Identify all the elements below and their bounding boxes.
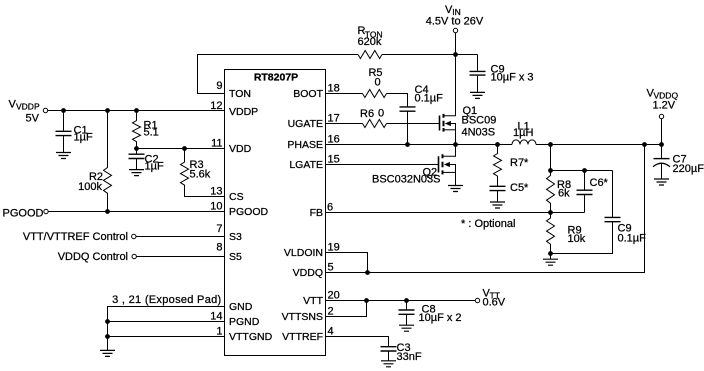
pin 14 PGND — [210, 311, 260, 329]
node VDDQ rail junction — [643, 143, 647, 147]
wire VTTSNS — [326, 301, 367, 317]
svg-text:13: 13 — [210, 186, 222, 198]
terminal VDDQ Control (S5) — [58, 251, 137, 263]
node VDD-R3 junction — [183, 147, 187, 151]
pin 20 VTT — [303, 290, 340, 308]
pin 15 LGATE — [289, 154, 339, 172]
wire GND pin — [108, 307, 225, 351]
capacitor C5* — [490, 182, 530, 202]
svg-text:0.1µF: 0.1µF — [415, 93, 444, 105]
wire R6 to Q1 gate — [387, 123, 440, 125]
node C6 top junction — [583, 169, 587, 173]
svg-text:BSC032N03S: BSC032N03S — [372, 174, 441, 186]
capacitor C1 1uF — [56, 111, 93, 153]
svg-text:8: 8 — [216, 242, 222, 254]
pin 7 S3 — [216, 223, 242, 243]
resistor R6 0 — [360, 108, 386, 128]
svg-text:18: 18 — [328, 83, 340, 95]
svg-text:VLDOIN: VLDOIN — [284, 247, 323, 259]
wire VTT net — [326, 300, 476, 302]
node R1-VDD junction — [135, 147, 139, 151]
wire VDDQ pin net — [326, 145, 645, 273]
wire TON net — [198, 55, 359, 94]
inductor L1 1uH — [512, 121, 536, 145]
svg-text:16: 16 — [328, 134, 340, 146]
svg-text:VDDQ Control: VDDQ Control — [58, 251, 128, 263]
pin 12 VDDP — [210, 100, 258, 118]
svg-text:VTT/VTTREF Control: VTT/VTTREF Control — [23, 231, 128, 243]
svg-text:1: 1 — [216, 326, 222, 338]
wire VDDP rail — [48, 110, 225, 112]
pin 8 S5 — [216, 242, 242, 264]
node VTT-VTTSNS junction — [365, 299, 369, 303]
wire PHASE to L1 — [498, 144, 513, 146]
capacitor C3 33nF — [381, 342, 422, 363]
svg-text:220µF: 220µF — [673, 163, 704, 175]
pin 19 VLDOIN — [284, 242, 340, 260]
wire rail to divider — [550, 145, 552, 171]
node PGND junction — [106, 320, 110, 324]
svg-text:33nF: 33nF — [397, 351, 422, 363]
node VDDP-R2 junction — [106, 109, 110, 113]
resistor R3 5.6k — [181, 149, 225, 197]
svg-text:10µF x 3: 10µF x 3 — [491, 72, 534, 84]
svg-text:TON: TON — [229, 88, 251, 100]
node FB-R8 junction — [549, 211, 553, 215]
capacitor C8 10uF x 2 — [399, 301, 462, 326]
ground (C2) — [129, 170, 144, 176]
wire VTTGND pin — [108, 336, 225, 338]
svg-text:5: 5 — [328, 262, 334, 274]
svg-text:CS: CS — [229, 191, 244, 203]
svg-text:5V: 5V — [26, 113, 40, 125]
wire S3 — [136, 236, 225, 238]
wire PGOOD — [48, 211, 224, 213]
svg-text:12: 12 — [210, 100, 222, 112]
svg-text:3 , 21 (Exposed Pad): 3 , 21 (Exposed Pad) — [112, 294, 221, 306]
svg-text:S3: S3 — [229, 231, 242, 243]
svg-text:S5: S5 — [229, 251, 242, 263]
pin 10 PGOOD — [210, 201, 268, 219]
terminal V_VDDQ 1.2V — [647, 88, 679, 145]
svg-text:0.1µF: 0.1µF — [618, 233, 647, 245]
svg-text:VTT: VTT — [303, 295, 323, 307]
wire LGATE to Q2 gate — [326, 164, 439, 166]
pin 18 BOOT — [293, 83, 340, 101]
svg-text:C5*: C5* — [510, 182, 529, 194]
pin 4 VTTREF — [282, 326, 333, 344]
svg-text:4: 4 — [328, 326, 334, 338]
terminal VTT 0.6V — [475, 288, 505, 309]
ground (GND bus) — [100, 350, 115, 356]
wire VDD — [137, 148, 225, 150]
svg-text:VDDP: VDDP — [16, 102, 40, 112]
svg-text:20: 20 — [328, 290, 340, 302]
ground (C9 input) — [470, 92, 485, 98]
node VDDP-R1 junction — [135, 109, 139, 113]
svg-text:6k: 6k — [558, 188, 570, 200]
node Q1 source / PHASE junction — [454, 143, 458, 147]
wire PHASE net — [326, 144, 498, 146]
wire R5 to C4 — [387, 94, 408, 107]
capacitor C6* — [577, 171, 609, 213]
ground (C7) — [654, 179, 669, 185]
ground (R9) — [550, 254, 552, 260]
ground (Q2 source) — [448, 186, 463, 192]
svg-text:R7*: R7* — [510, 157, 529, 169]
node VDDQ rail - R8 divider junction — [549, 143, 553, 147]
svg-text:BOOT: BOOT — [293, 88, 323, 100]
IC U1 RT8207P box — [225, 70, 326, 356]
svg-text:1µF: 1µF — [74, 132, 93, 144]
svg-text:C6*: C6* — [590, 177, 609, 189]
wire UGATE to Q1 gate — [326, 123, 363, 125]
capacitor C4 0.1uF — [400, 84, 444, 145]
svg-text:15: 15 — [328, 154, 340, 166]
svg-text:7: 7 — [216, 223, 222, 235]
wire RTON to VIN node — [382, 54, 478, 56]
svg-text:10k: 10k — [568, 233, 586, 245]
pin 1 VTTGND — [216, 326, 272, 344]
node VLDOIN-VDDQ junction — [366, 271, 370, 275]
pin 16 PHASE — [287, 134, 339, 152]
terminal V_VDDP 5V — [9, 99, 48, 125]
svg-text:BSC09: BSC09 — [462, 115, 497, 127]
svg-text:FB: FB — [310, 207, 323, 219]
terminal VIN 4.5V to 26V — [426, 4, 484, 55]
svg-text:17: 17 — [328, 113, 340, 125]
terminal VTT/VTTREF Control (S3) — [23, 231, 136, 243]
node VDDP-C1 junction — [62, 109, 66, 113]
svg-text:VDD: VDD — [229, 143, 252, 155]
ground (C1) — [56, 153, 71, 159]
svg-text:1µF: 1µF — [145, 161, 164, 173]
svg-text:GND: GND — [229, 301, 253, 313]
svg-text:VDDQ: VDDQ — [293, 267, 323, 279]
node PHASE-R7 junction — [496, 143, 500, 147]
svg-text:5.6k: 5.6k — [190, 169, 211, 181]
wire divider top to C6/C9 — [551, 170, 613, 172]
node VTTGND junction — [106, 335, 110, 339]
pin 2 VTTSNS — [282, 306, 334, 324]
svg-text:19: 19 — [328, 242, 340, 254]
resistor R2 100k — [78, 111, 111, 212]
ground (C3) — [381, 361, 396, 367]
transistor Q1 BSC09 4N03S — [440, 55, 497, 145]
node C4-PHASE junction — [406, 143, 410, 147]
node rail - C7 junction — [660, 143, 664, 147]
svg-text:PGND: PGND — [229, 316, 260, 328]
terminal PGOOD — [3, 208, 49, 220]
svg-text:6: 6 — [327, 202, 333, 214]
svg-text:5.1: 5.1 — [144, 127, 159, 139]
svg-text:2: 2 — [328, 306, 334, 318]
svg-text:11: 11 — [211, 138, 222, 150]
svg-text:VTTSNS: VTTSNS — [282, 311, 323, 323]
svg-text:4.5V to 26V: 4.5V to 26V — [426, 16, 484, 28]
node VIN junction — [454, 53, 458, 57]
svg-text:0.6V: 0.6V — [483, 297, 506, 309]
svg-text:14: 14 — [210, 311, 222, 323]
capacitor C9 0.1uF — [551, 171, 647, 254]
svg-text:1µH: 1µH — [513, 127, 533, 139]
svg-text:4N03S: 4N03S — [462, 127, 496, 139]
pin 11 VDD — [211, 138, 252, 156]
svg-text:100k: 100k — [78, 181, 102, 193]
svg-text:VDDP: VDDP — [229, 106, 258, 118]
ground (C5) — [490, 202, 505, 208]
svg-text:1.2V: 1.2V — [653, 100, 676, 112]
svg-text:PGOOD: PGOOD — [3, 208, 44, 220]
svg-text:UGATE: UGATE — [288, 118, 323, 130]
svg-text:PGOOD: PGOOD — [229, 206, 269, 218]
svg-text:RT8207P: RT8207P — [254, 72, 298, 84]
resistor R5 0 — [363, 67, 387, 98]
pin 5 VDDQ — [293, 262, 334, 280]
wire S5 — [136, 256, 224, 258]
node divider top junction — [549, 169, 553, 173]
capacitor C9 10uF x 3 — [470, 55, 534, 93]
wire BOOT to R5 — [326, 93, 363, 95]
svg-text:LGATE: LGATE — [289, 159, 323, 171]
transistor Q2 BSC032N03S — [372, 145, 456, 186]
ground (C8) — [399, 325, 414, 331]
resistor R9 10k — [547, 213, 586, 254]
wire FB net — [326, 212, 585, 214]
svg-text:PHASE: PHASE — [287, 139, 323, 151]
svg-text:VTTGND: VTTGND — [229, 331, 273, 343]
resistor RTON 620k — [358, 25, 383, 59]
pin 17 UGATE — [288, 113, 340, 131]
svg-text:9: 9 — [216, 80, 222, 92]
svg-text:0: 0 — [374, 77, 380, 89]
resistor R1 5.1 — [133, 111, 159, 149]
node VTT-C8 junction — [405, 299, 409, 303]
svg-text:* : Optional: * : Optional — [461, 218, 515, 230]
pin 13 CS — [210, 186, 243, 204]
wire L1 to VDDQ rail — [536, 144, 662, 146]
capacitor C7 220uF (polarized) — [653, 145, 704, 180]
resistor R7* — [494, 145, 530, 187]
svg-text:VTTREF: VTTREF — [282, 331, 323, 343]
wire VLDOIN — [326, 253, 368, 273]
svg-text:620k: 620k — [358, 36, 382, 48]
pin 9 TON — [216, 80, 251, 100]
wire PGND pin — [108, 321, 225, 323]
node R9 bottom junction — [549, 252, 553, 256]
node PGOOD-R2 junction — [106, 210, 110, 214]
pin 6 FB — [310, 202, 334, 220]
wire VTTREF — [326, 337, 389, 347]
svg-text:10µF x 2: 10µF x 2 — [419, 312, 462, 324]
capacitor C2 1uF — [129, 149, 164, 173]
resistor R8 6k — [547, 171, 572, 213]
svg-text:R6: R6 — [360, 108, 374, 120]
svg-text:0: 0 — [378, 108, 384, 120]
svg-text:10: 10 — [210, 201, 222, 213]
